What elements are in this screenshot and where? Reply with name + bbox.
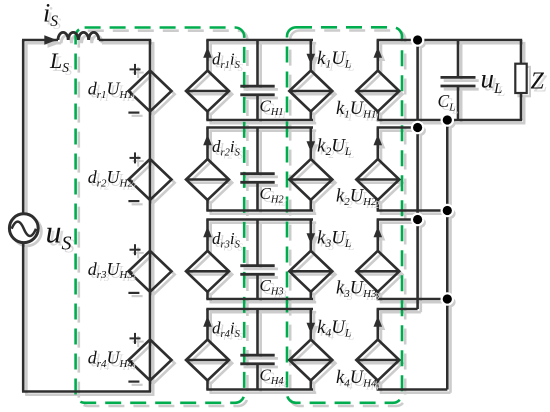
- svg-text:Z: Z: [531, 69, 545, 95]
